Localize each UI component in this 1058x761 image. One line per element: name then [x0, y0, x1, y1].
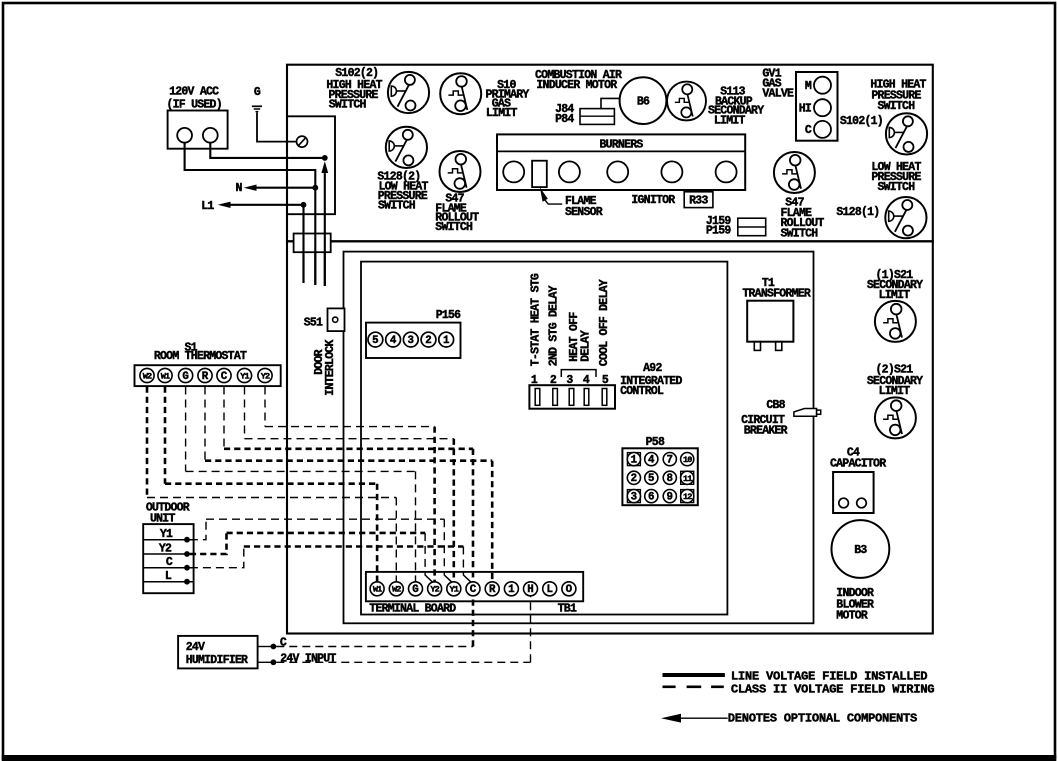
svg-text:SWITCH: SWITCH: [329, 99, 367, 112]
outdoor terminal Y1: [143, 528, 193, 542]
svg-text:W1: W1: [373, 585, 382, 595]
svg-text:A92: A92: [643, 362, 662, 375]
thermostat terminal R: [198, 368, 212, 383]
flame sensor: [532, 161, 547, 187]
wire thermostat R to board R: [205, 387, 492, 582]
svg-text:MOTOR: MOTOR: [836, 609, 868, 622]
wire J84 to B6: [601, 98, 620, 108]
circuit breaker CB8: [794, 409, 821, 417]
svg-text:BURNERS: BURNERS: [599, 138, 643, 151]
svg-text:G: G: [182, 371, 188, 383]
P58 pin 4: [645, 453, 658, 467]
svg-text:W2: W2: [143, 371, 152, 381]
svg-text:R33: R33: [689, 195, 708, 208]
label C4 CAPACITOR: [830, 447, 886, 471]
svg-text:24V INPUT: 24V INPUT: [280, 652, 336, 665]
label (1)S21 SECONDARY LIMIT: [867, 269, 923, 302]
burner 2: [559, 161, 580, 182]
svg-text:SWITCH: SWITCH: [877, 181, 915, 194]
burner 4: [661, 161, 682, 182]
svg-text:TRANSFORMER: TRANSFORMER: [742, 287, 811, 300]
wire outdoor Y2 to board Y2: [190, 533, 433, 583]
wire thermostat W2 to board W2: [147, 387, 396, 582]
control box: [361, 262, 727, 615]
svg-text:Y2: Y2: [430, 585, 439, 595]
svg-text:BREAKER: BREAKER: [744, 425, 788, 438]
P58 pin 6: [645, 490, 658, 504]
wire thermostat Y2 to board Y2: [265, 387, 435, 582]
svg-text:C: C: [280, 637, 287, 650]
svg-text:DELAY: DELAY: [580, 330, 593, 362]
bracket pins 3-4: [561, 370, 596, 377]
svg-text:P156: P156: [436, 309, 461, 322]
gas valve GV1 terminal block: [796, 72, 838, 141]
svg-text:10: 10: [683, 455, 692, 465]
svg-text:W1: W1: [161, 371, 170, 381]
junction dot hot: [322, 155, 328, 161]
board terminal O: [562, 582, 576, 596]
limit switch S113: [667, 82, 706, 121]
blower deck box: [344, 252, 814, 624]
terminal board TB1 box: [366, 572, 583, 601]
svg-text:(IF USED): (IF USED): [167, 98, 222, 111]
label HIGH HEAT PRESSURE SWITCH right: [870, 79, 926, 113]
label 120V ACC (IF USED): [167, 85, 222, 111]
junction box: [287, 116, 335, 214]
pressure switch S128(2): [386, 127, 427, 168]
svg-text:P58: P58: [646, 436, 665, 449]
limit switch (1)S21: [875, 301, 916, 342]
board terminal Y2: [428, 582, 442, 596]
P58 pin 8: [663, 471, 676, 485]
svg-text:Y1: Y1: [240, 371, 249, 381]
svg-text:5: 5: [648, 473, 654, 485]
label S47 FLAME ROLLOUT SWITCH right: [781, 197, 825, 241]
svg-text:11: 11: [683, 474, 692, 484]
svg-text:8: 8: [667, 473, 673, 485]
label S47 FLAME ROLLOUT SWITCH left: [435, 193, 479, 235]
board terminal 1: [504, 582, 518, 596]
svg-text:LIMIT: LIMIT: [879, 385, 911, 398]
switch S51 door interlock: [328, 308, 345, 331]
svg-text:N: N: [235, 182, 242, 195]
ground symbol G: [252, 86, 262, 112]
connector J84 P84: [555, 103, 614, 126]
legend class II sample: [663, 685, 724, 688]
svg-text:C: C: [221, 371, 228, 383]
wire ground to screw terminal: [257, 112, 297, 141]
outdoor terminal C: [143, 556, 193, 570]
board terminal W1: [370, 582, 384, 596]
limit switch S47 right: [774, 152, 815, 193]
svg-text:SWITCH: SWITCH: [781, 228, 819, 241]
P58 key squares: [627, 453, 693, 503]
pressure switch S102(2): [388, 72, 429, 113]
svg-text:1: 1: [631, 454, 638, 466]
svg-text:SWITCH: SWITCH: [435, 221, 473, 234]
svg-text:S128(1): S128(1): [836, 206, 879, 219]
svg-text:24V: 24V: [186, 641, 205, 654]
wire thermostat W1 to board W1: [165, 387, 377, 582]
label S10 PRIMARY GAS LIMIT: [485, 79, 529, 120]
thermostat terminal W2: [140, 368, 154, 382]
thermostat terminal Y1: [237, 368, 251, 382]
screw terminal: [297, 136, 308, 147]
svg-text:LIMIT: LIMIT: [486, 107, 518, 120]
pressure switch S128(1): [885, 197, 926, 238]
arrowhead up on hot wire: [321, 161, 328, 173]
wire ACC hot: [210, 143, 324, 158]
fuse block: [294, 234, 331, 253]
outdoor terminal Y2: [143, 543, 193, 557]
svg-text:R: R: [202, 371, 209, 383]
svg-text:DENOTES OPTIONAL COMPONENTS: DENOTES OPTIONAL COMPONENTS: [728, 711, 917, 725]
svg-text:2: 2: [631, 473, 637, 485]
inducer motor B6: [620, 77, 667, 124]
P58 pin 10: [681, 453, 694, 466]
junction dot L1: [301, 202, 307, 208]
label DOOR INTERLOCK: [313, 339, 337, 395]
svg-text:CONTROL: CONTROL: [620, 385, 664, 398]
svg-text:9: 9: [667, 491, 673, 503]
svg-text:2: 2: [425, 335, 431, 347]
label T1 TRANSFORMER: [742, 277, 811, 301]
burner 3: [607, 161, 628, 182]
svg-text:12: 12: [683, 492, 692, 502]
svg-text:G: G: [412, 584, 418, 596]
P156 pin 4: [386, 332, 401, 347]
label A92 INTEGRATED CONTROL: [620, 362, 682, 398]
A92 pin slots: [535, 389, 607, 406]
svg-text:4: 4: [390, 335, 397, 347]
svg-text:B6: B6: [637, 95, 650, 108]
label 24V HUMIDIFIER: [186, 641, 248, 667]
svg-text:LIMIT: LIMIT: [714, 115, 746, 128]
label OUTDOOR UNIT: [146, 502, 190, 526]
board terminal R: [485, 582, 499, 596]
P156 pin 2: [421, 332, 436, 347]
svg-text:P159: P159: [706, 224, 731, 237]
svg-text:3: 3: [631, 491, 637, 503]
svg-text:S51: S51: [304, 316, 323, 329]
svg-text:INTERLOCK: INTERLOCK: [324, 339, 337, 395]
svg-text:O: O: [566, 584, 573, 596]
wire N with arrow: [244, 185, 257, 191]
svg-text:P84: P84: [555, 113, 574, 126]
svg-text:C: C: [470, 584, 477, 596]
connector A92 header: [529, 385, 615, 409]
humidifier stub 24V input: [258, 659, 277, 665]
svg-text:SWITCH: SWITCH: [877, 100, 915, 113]
svg-text:HUMIDIFIER: HUMIDIFIER: [186, 654, 248, 667]
wire hot down through fuse: [324, 169, 326, 286]
humidifier box: [178, 636, 258, 669]
label CB8 CIRCUIT BREAKER: [741, 399, 788, 438]
wire thermostat C to board C: [224, 387, 473, 582]
label INDOOR BLOWER MOTOR: [836, 587, 874, 622]
label GV1 GAS VALVE: [762, 68, 794, 101]
P58 pin 7: [663, 453, 676, 467]
svg-text:3: 3: [408, 335, 414, 347]
board terminal Y1: [447, 582, 461, 596]
label (2)S21 SECONDARY LIMIT: [867, 364, 923, 399]
svg-text:2ND STG DELAY: 2ND STG DELAY: [548, 285, 561, 366]
svg-text:COOL OFF DELAY: COOL OFF DELAY: [598, 279, 611, 366]
label S128(2) LOW HEAT PRESSURE SWITCH: [377, 171, 428, 213]
label COMBUSTION AIR INDUCER MOTOR: [535, 69, 622, 92]
svg-text:Y1: Y1: [450, 585, 459, 595]
wire L1 with arrow: [218, 202, 231, 208]
wire stubs through fuse block: [304, 234, 325, 287]
svg-text:R: R: [489, 584, 496, 596]
svg-text:INDUCER MOTOR: INDUCER MOTOR: [536, 79, 617, 92]
limit switch (2)S21: [875, 397, 916, 438]
connector P58: [622, 436, 697, 505]
label HEAT OFF DELAY: [568, 312, 593, 362]
120V ACC terminal block: [168, 111, 228, 149]
P58 pin 9: [663, 490, 676, 504]
label S113 BACKUP SECONDARY LIMIT: [708, 86, 764, 128]
outdoor unit terminal block: [143, 524, 193, 593]
connector J159 P159: [706, 215, 766, 237]
svg-text:S102(1): S102(1): [840, 115, 883, 128]
burner box: [497, 134, 745, 190]
wire N down: [314, 188, 316, 285]
svg-text:H: H: [527, 584, 533, 596]
thermostat S1 terminal strip: [135, 365, 281, 386]
humidifier stub C: [258, 644, 277, 650]
connector P156: [366, 309, 461, 358]
limit switch S10: [440, 73, 481, 114]
flame sensor leader arrow: [540, 187, 563, 204]
burner 5: [716, 161, 737, 182]
blower motor B3: [832, 520, 890, 578]
burner 1: [503, 161, 524, 182]
board terminal L: [543, 582, 557, 596]
label S1 ROOM THERMOSTAT: [154, 341, 247, 363]
wire outdoor Y1 to board Y1: [190, 519, 452, 582]
thermostat terminal G: [179, 368, 193, 383]
pressure switch S102(1): [886, 113, 927, 154]
transformer T1: [747, 301, 793, 351]
svg-text:C: C: [805, 124, 812, 137]
svg-text:6: 6: [648, 491, 654, 503]
svg-text:CAPACITOR: CAPACITOR: [830, 458, 886, 471]
P58 pin 11: [681, 471, 694, 484]
legend optional components arrow: [661, 714, 728, 723]
svg-text:Y2: Y2: [261, 371, 270, 381]
P156 pin 3: [403, 332, 418, 347]
junction dot N: [312, 185, 318, 191]
P58 pin 3: [627, 490, 640, 504]
P58 pin 2: [627, 471, 640, 485]
svg-text:4: 4: [648, 454, 655, 466]
svg-text:VALVE: VALVE: [762, 87, 794, 100]
svg-text:1: 1: [443, 335, 450, 347]
svg-text:SENSOR: SENSOR: [565, 206, 603, 219]
wire thermostat G to board G: [186, 387, 416, 582]
legend line voltage sample: [663, 673, 725, 677]
wire humidifier 24V input to board H: [276, 596, 530, 663]
svg-text:CLASS II VOLTAGE FIELD WIRING: CLASS II VOLTAGE FIELD WIRING: [731, 683, 934, 697]
svg-text:G: G: [254, 86, 261, 99]
svg-text:T-STAT HEAT STG: T-STAT HEAT STG: [530, 273, 543, 366]
thermostat terminal Y2: [258, 368, 272, 382]
resistor R33: [684, 192, 713, 208]
svg-text:HI: HI: [799, 103, 812, 116]
svg-text:SWITCH: SWITCH: [378, 200, 416, 213]
svg-text:W2: W2: [392, 585, 401, 595]
P156 pin 1: [439, 332, 454, 347]
P58 pin 5: [645, 471, 658, 485]
svg-text:ROOM THERMOSTAT: ROOM THERMOSTAT: [154, 350, 247, 363]
svg-text:CB8: CB8: [766, 399, 785, 412]
svg-text:1: 1: [508, 584, 515, 596]
label S102(2) HIGH HEAT PRESSURE SWITCH: [326, 67, 382, 112]
wire outdoor C to board C: [190, 547, 472, 583]
furnace upper cabinet box: [287, 65, 933, 242]
svg-text:M: M: [805, 80, 812, 93]
svg-text:7: 7: [667, 454, 673, 466]
limit switch S47 left: [440, 151, 481, 192]
svg-text:L1: L1: [201, 200, 214, 213]
wire humidifier C to board C: [276, 596, 473, 647]
P58 pin 1: [627, 453, 640, 467]
wire L1 down: [302, 205, 304, 283]
svg-text:IGNITOR: IGNITOR: [631, 194, 675, 207]
svg-text:B3: B3: [854, 544, 867, 557]
svg-text:5: 5: [372, 335, 378, 347]
thermostat terminal W1: [158, 368, 172, 382]
outdoor terminal L: [143, 570, 193, 584]
svg-text:L: L: [546, 584, 552, 596]
label FLAME SENSOR: [565, 195, 603, 219]
svg-text:120V ACC: 120V ACC: [169, 85, 219, 98]
A92 pin numbers 1 2 3 4 5: [531, 374, 609, 387]
P156 pin 5: [368, 332, 383, 347]
thermostat terminal C: [217, 368, 231, 383]
svg-text:LINE VOLTAGE FIELD INSTALLED: LINE VOLTAGE FIELD INSTALLED: [731, 670, 927, 684]
svg-text:S102(2): S102(2): [335, 67, 378, 80]
label LOW HEAT PRESSURE SWITCH right: [871, 161, 921, 194]
P58 pin 12: [681, 490, 694, 503]
svg-text:TERMINAL BOARD: TERMINAL BOARD: [369, 602, 456, 615]
board terminal C: [466, 582, 480, 596]
furnace lower cabinet box: [287, 241, 933, 633]
capacitor C4: [833, 472, 874, 513]
svg-text:TB1: TB1: [558, 602, 577, 615]
wire thermostat Y1 to board Y1: [245, 387, 454, 582]
board terminal W2: [389, 582, 403, 596]
wire ACC neutral: [185, 143, 316, 188]
board terminal G: [409, 582, 423, 596]
board terminal H: [524, 582, 538, 596]
